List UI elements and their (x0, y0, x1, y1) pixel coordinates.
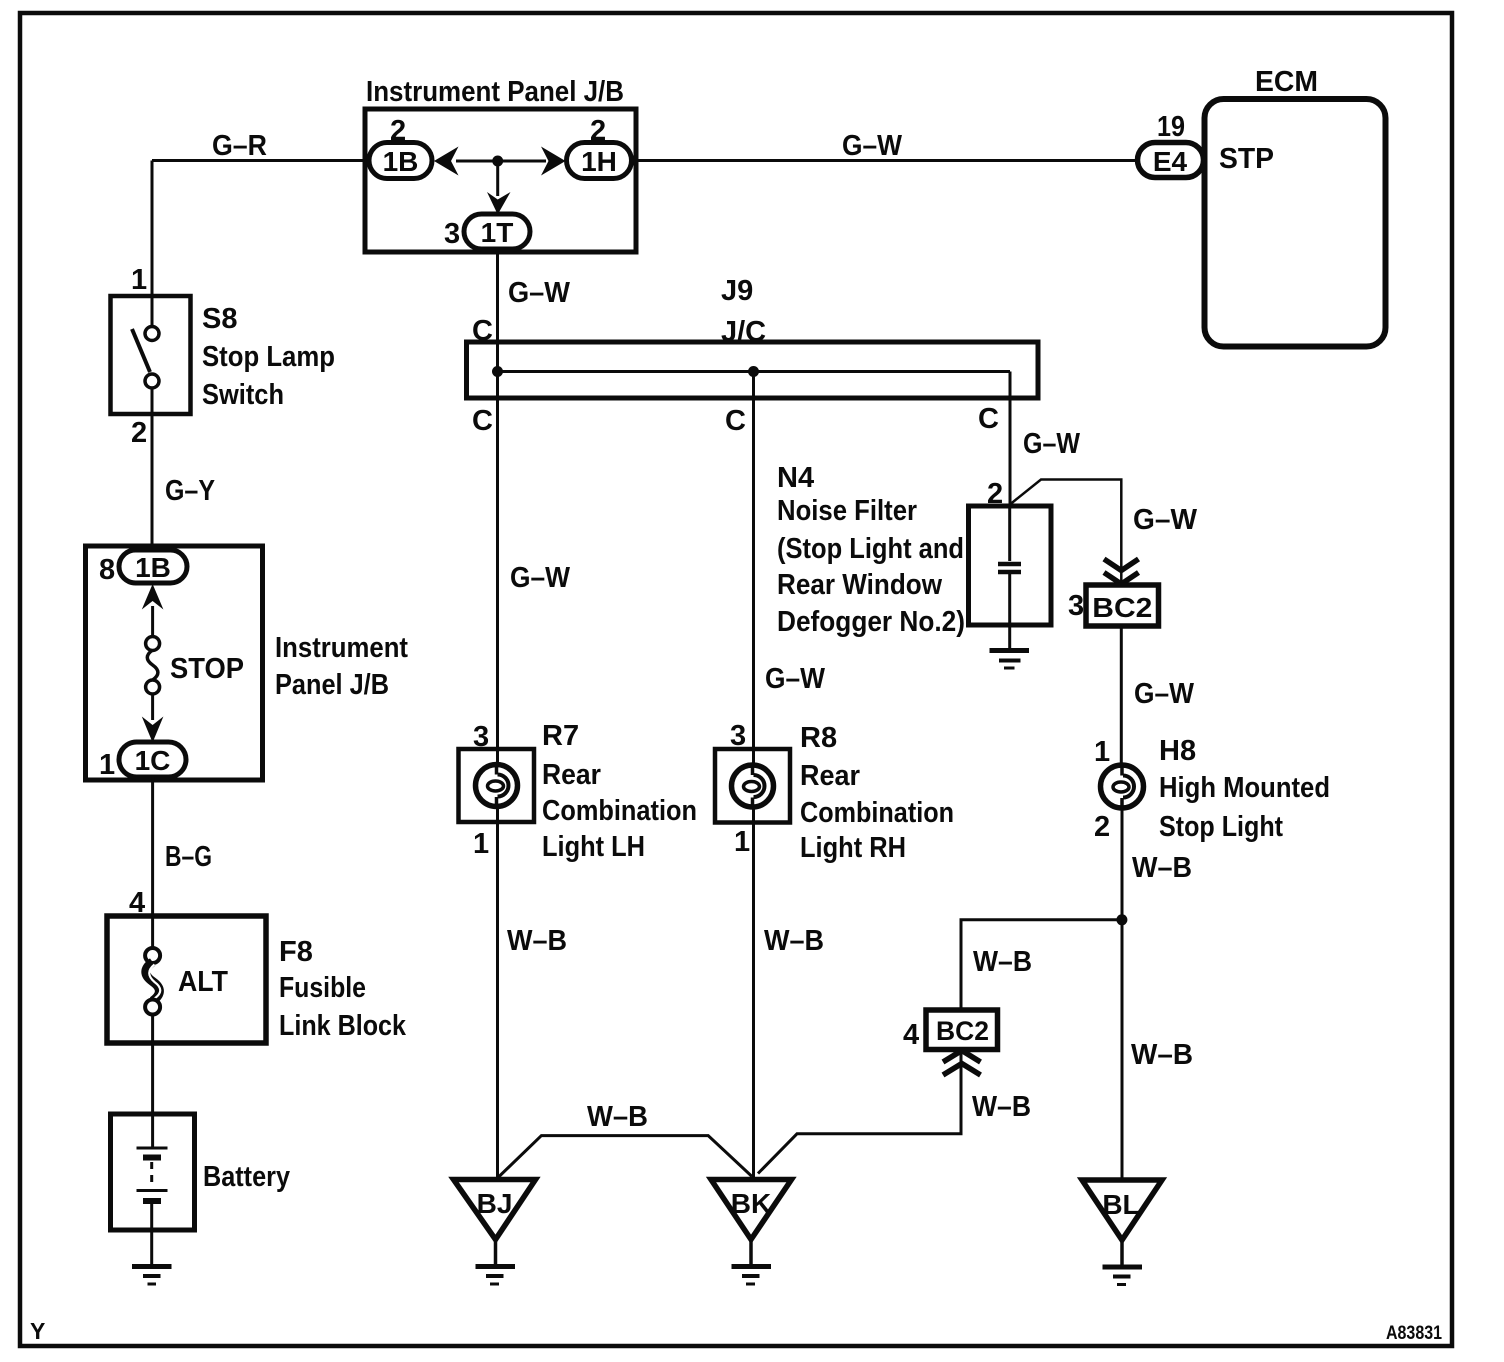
F8 box (107, 916, 266, 1043)
svg-text:Rear: Rear (542, 759, 601, 791)
N4 filter box (969, 506, 1052, 625)
svg-text:G–Y: G–Y (165, 475, 215, 507)
svg-text:Noise Filter: Noise Filter (777, 495, 917, 527)
ground (battery) (132, 1264, 172, 1269)
svg-text:Y: Y (30, 1318, 45, 1344)
ground (N4) (990, 648, 1030, 653)
svg-text:Instrument Panel J/B: Instrument Panel J/B (366, 76, 624, 108)
svg-text:W–B: W–B (1132, 852, 1192, 884)
arrow up (black) (142, 584, 164, 610)
H8 bulb circle (1101, 765, 1144, 808)
svg-text:BL: BL (1102, 1189, 1139, 1220)
chevrons below BC2 (pointing up) (943, 1051, 981, 1063)
svg-text:W–B: W–B (764, 925, 824, 957)
svg-text:1: 1 (1094, 736, 1110, 768)
svg-text:8: 8 (99, 554, 115, 586)
svg-text:BK: BK (731, 1188, 771, 1219)
svg-text:Combination: Combination (800, 797, 954, 829)
wire through box (left) (496, 342, 499, 398)
switch lever (132, 329, 150, 372)
svg-text:BC2: BC2 (936, 1016, 989, 1046)
svg-text:BC2: BC2 (1092, 592, 1152, 623)
battery plate long 2 (137, 1189, 168, 1192)
connector 1T oval (464, 214, 530, 249)
connector E4 oval (1138, 143, 1204, 178)
svg-text:ALT: ALT (178, 966, 228, 998)
svg-text:R8: R8 (800, 722, 837, 754)
svg-text:G–W: G–W (765, 663, 826, 695)
svg-text:Fusible: Fusible (279, 972, 366, 1004)
svg-text:W–B: W–B (1131, 1039, 1193, 1071)
svg-text:W–B: W–B (507, 925, 567, 957)
svg-text:3: 3 (1068, 590, 1084, 622)
svg-text:Light LH: Light LH (542, 831, 645, 863)
battery plate long 1 (137, 1147, 168, 1150)
svg-text:G–W: G–W (1023, 428, 1081, 460)
wire BC2 down and left to BK (758, 1049, 961, 1174)
svg-text:Rear Window: Rear Window (777, 569, 942, 601)
svg-text:E4: E4 (1153, 146, 1188, 177)
svg-text:S8: S8 (202, 303, 237, 335)
wire left vertical down to S8 (151, 161, 154, 328)
svg-text:High Mounted: High Mounted (1159, 772, 1330, 804)
junction node dot (1116, 914, 1127, 925)
arrow down (black) (142, 717, 164, 743)
wire R7 to BJ (496, 806, 499, 1179)
J/C internal bus (497, 370, 1010, 373)
wire J/C to R8 (752, 371, 755, 766)
svg-text:Link Block: Link Block (279, 1010, 407, 1042)
svg-text:1: 1 (131, 264, 147, 296)
svg-text:STP: STP (1219, 143, 1274, 175)
svg-text:A83831: A83831 (1386, 1323, 1442, 1344)
node dot left (492, 366, 503, 377)
svg-text:(Stop Light and: (Stop Light and (777, 533, 964, 565)
svg-text:B–G: B–G (165, 841, 212, 873)
arrow right (black) (541, 147, 566, 176)
fuse wavy element (147, 650, 158, 680)
wire between arrows (456, 160, 546, 163)
wire into fusible link (151, 916, 154, 949)
fuse STOP : top terminal (146, 637, 160, 651)
ECM box (1205, 99, 1386, 347)
svg-text:G–W: G–W (510, 562, 571, 594)
svg-text:1T: 1T (481, 217, 514, 248)
svg-text:Battery: Battery (203, 1161, 290, 1193)
wire fuse down (151, 694, 154, 720)
battery dashed center (150, 1162, 153, 1188)
BC2 box (double) (926, 1010, 998, 1050)
connector 1C oval (119, 742, 186, 777)
wire J/C to R7 (496, 398, 499, 766)
svg-text:Panel J/B: Panel J/B (275, 669, 389, 701)
connector 1H oval (567, 143, 632, 179)
svg-text:2: 2 (1094, 811, 1110, 843)
svg-text:Defogger No.2): Defogger No.2) (777, 606, 965, 638)
wire arrow to fuse (151, 606, 154, 637)
wire BC2 to H8 (1120, 626, 1123, 766)
svg-text:STOP: STOP (170, 653, 244, 685)
J/C box (467, 342, 1039, 398)
branch diagonal to BC2 (1011, 480, 1122, 586)
svg-text:C: C (978, 403, 999, 435)
BC2 box (1086, 585, 1159, 626)
wire R8 to BK (752, 807, 755, 1177)
junction box (86, 546, 263, 780)
svg-text:1: 1 (473, 828, 489, 860)
battery plate short 1 (143, 1155, 161, 1161)
svg-text:1: 1 (734, 826, 750, 858)
svg-text:G–W: G–W (842, 130, 903, 162)
svg-text:G–W: G–W (1133, 504, 1198, 536)
wire 1H to E4 (631, 159, 1140, 162)
wire F8 to battery (151, 1014, 154, 1147)
svg-text:Stop Lamp: Stop Lamp (202, 341, 335, 373)
battery plate short 2 (143, 1198, 161, 1204)
wire S8 down to J/B (151, 388, 154, 548)
svg-text:H8: H8 (1159, 735, 1196, 767)
wire 1C down to F8 (151, 777, 154, 918)
switch contact upper circle (145, 327, 159, 341)
wire dot down to 1T (496, 161, 499, 196)
node dot (492, 156, 503, 167)
svg-text:Rear: Rear (800, 760, 860, 792)
fusible link top terminal (145, 948, 160, 963)
junction box Instrument Panel J/B (top) (365, 109, 636, 252)
wire BJ to BK (498, 1136, 753, 1178)
wire G-R horizontal from corner to 1B (152, 159, 372, 162)
svg-text:R7: R7 (542, 720, 579, 752)
svg-text:ECM: ECM (1255, 66, 1318, 98)
stop lamp switch S8 box (111, 296, 191, 414)
svg-text:BJ: BJ (477, 1188, 513, 1219)
R7 bulb box (459, 749, 535, 822)
R8 bulb circle (732, 765, 774, 807)
fuse bottom terminal (146, 680, 160, 694)
svg-text:1B: 1B (135, 552, 171, 583)
svg-text:Instrument: Instrument (275, 632, 408, 664)
svg-text:Combination: Combination (542, 795, 697, 827)
switch contact lower circle (145, 374, 159, 388)
svg-text:Switch: Switch (202, 379, 284, 411)
node dot center (748, 366, 759, 377)
svg-text:Stop Light: Stop Light (1159, 811, 1283, 843)
wire 1T down to J/C (496, 249, 499, 342)
svg-text:G–W: G–W (1134, 678, 1195, 710)
svg-text:G–W: G–W (508, 277, 571, 309)
arrow left (black) (434, 147, 459, 176)
svg-text:4: 4 (903, 1019, 919, 1051)
R7 bulb circle (476, 765, 518, 807)
svg-text:1H: 1H (581, 146, 617, 177)
svg-text:W–B: W–B (973, 946, 1032, 978)
svg-text:1C: 1C (135, 745, 171, 776)
wire junction to BC2 pin4 (961, 920, 1122, 1010)
fusible link bottom terminal (145, 1000, 160, 1015)
svg-text:C: C (725, 405, 746, 437)
svg-text:G–R: G–R (212, 130, 267, 162)
capacitor plates (998, 562, 1021, 567)
svg-text:W–B: W–B (972, 1091, 1031, 1123)
fusible link element (thick squiggle) (146, 962, 160, 1001)
svg-text:C: C (472, 405, 493, 437)
svg-text:Light RH: Light RH (800, 832, 906, 864)
chevrons into BC2 (1104, 559, 1139, 571)
svg-text:N4: N4 (777, 462, 814, 494)
arrow down (black) (487, 192, 511, 215)
connector 1B oval (119, 550, 187, 583)
capacitor lead top (1008, 506, 1011, 561)
svg-text:W–B: W–B (587, 1101, 648, 1133)
R8 bulb box (715, 749, 790, 823)
svg-text:3: 3 (444, 218, 460, 250)
capacitor lead bottom (1008, 574, 1011, 648)
svg-text:1: 1 (99, 749, 115, 781)
svg-text:F8: F8 (279, 936, 313, 968)
battery box (111, 1114, 195, 1230)
svg-text:J9: J9 (721, 275, 753, 307)
svg-text:1B: 1B (383, 146, 419, 177)
wire H8 down to BL (1121, 807, 1124, 1181)
svg-text:19: 19 (1157, 111, 1185, 143)
svg-text:2: 2 (131, 417, 147, 449)
wire battery to ground (150, 1204, 153, 1266)
connector 1B oval (369, 143, 432, 179)
wire J/C right drop (1009, 372, 1012, 508)
